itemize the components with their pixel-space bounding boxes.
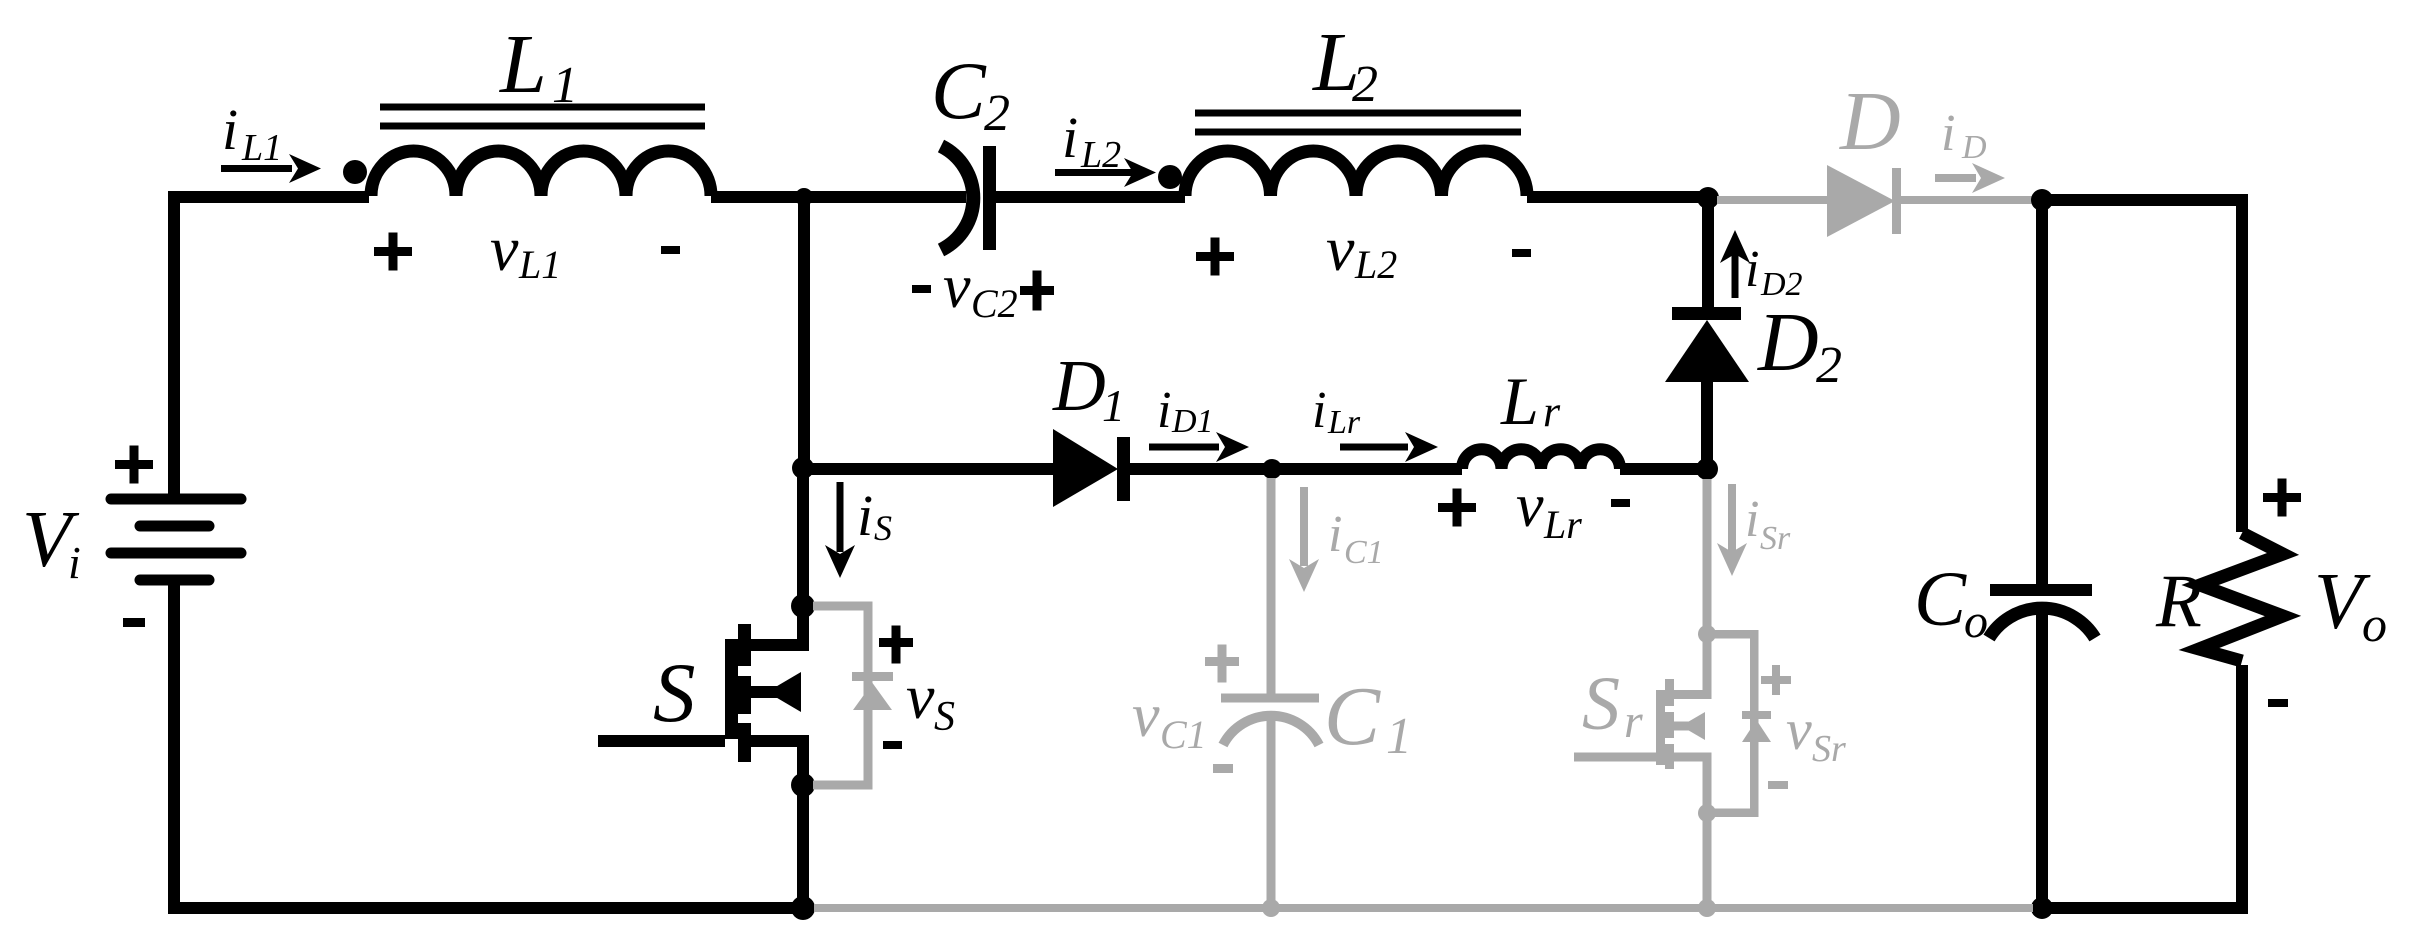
current arrow iD1 <box>1149 444 1219 451</box>
svg-text:Sr: Sr <box>1812 728 1846 770</box>
svg-text:L: L <box>1500 363 1539 439</box>
node: junction L2/D/D2 <box>1697 187 1719 209</box>
inductor Lr coil <box>1462 449 1620 469</box>
wire: middle horizontal from S branch to D1 <box>803 463 1053 475</box>
transistor S gate lead <box>598 735 725 747</box>
wire: bottom rail gray from S branch to Co node <box>814 904 2033 912</box>
transistor Sr source lead (gray) <box>1674 753 1712 814</box>
svg-text:i: i <box>1941 105 1955 162</box>
svg-text:1: 1 <box>1102 380 1125 431</box>
label + of Vi <box>115 446 153 484</box>
label - of vC1 (gray) <box>1213 764 1233 773</box>
capacitor C1 straight plate (gray) <box>1221 694 1319 703</box>
wire: vertical from S source node to bottom rail <box>797 785 809 914</box>
node: junction of S branch and D1 wire <box>792 457 814 479</box>
diode D (gray) triangle <box>1827 165 1895 237</box>
svg-text:v: v <box>943 253 971 321</box>
wire: D2 anode vertical down to Lr node <box>1701 382 1713 469</box>
current arrow iSr (gray) <box>1728 484 1736 552</box>
svg-text:o: o <box>2362 596 2387 652</box>
svg-text:D: D <box>1052 345 1106 426</box>
wire: bottom rail black from Vi to S branch <box>168 902 809 914</box>
capacitor C1 branch wire (gray) from D1 node down <box>1267 478 1276 698</box>
svg-text:2: 2 <box>1352 56 1378 113</box>
label -vC2+ <box>912 285 931 293</box>
wire: R branch vertical bottom <box>2236 665 2248 914</box>
svg-text:Lr: Lr <box>1543 502 1582 547</box>
svg-text:S: S <box>934 694 955 740</box>
transistor S channel bar segments <box>738 624 751 762</box>
svg-text:Sr: Sr <box>1760 520 1791 557</box>
node: junction Lr/D2/Sr <box>1696 458 1718 480</box>
diode D2 triangle <box>1665 320 1749 382</box>
wire: top horizontal from L1 to C2 <box>711 191 966 203</box>
transistor Sr drain lead (gray) <box>1674 634 1712 699</box>
svg-text:S: S <box>1582 662 1620 746</box>
svg-text:Lr: Lr <box>1327 404 1361 441</box>
svg-text:C1: C1 <box>1344 534 1384 571</box>
svg-text:v: v <box>490 213 519 284</box>
wire: bottom-right horizontal rail from R to Co node <box>2042 902 2248 914</box>
wire: left vertical from top corner down to battery + plate <box>168 191 180 499</box>
wire: Sr branch vertical (gray) from Lr node down to Sr drain node <box>1703 479 1712 634</box>
label + of vLr <box>1438 489 1476 527</box>
node: Sr/bottom rail junction (gray) <box>1698 899 1716 917</box>
diode D (gray) cathode bar <box>1892 168 1901 234</box>
current arrow iS <box>837 482 844 552</box>
transistor Sr gate lead (gray) <box>1574 753 1656 762</box>
svg-text:o: o <box>1964 595 1988 648</box>
svg-text:i: i <box>68 537 81 588</box>
svg-text:r: r <box>1624 695 1643 748</box>
label - of Vo <box>2268 699 2288 707</box>
svg-text:i: i <box>1328 506 1342 563</box>
svg-text:i: i <box>1745 241 1759 298</box>
svg-text:i: i <box>1062 105 1078 170</box>
svg-text:v: v <box>1132 682 1160 750</box>
current arrow iD2 <box>1732 250 1739 298</box>
label + of vL2 <box>1196 238 1234 276</box>
battery Vi plate 3 (long) <box>111 548 241 559</box>
capacitor Co straight plate <box>1990 584 2092 596</box>
current arrow iLr <box>1340 444 1408 451</box>
inductor L2 core lines <box>1195 113 1521 132</box>
inductor L1 coil <box>371 151 711 196</box>
wire: R branch vertical top <box>2236 200 2248 532</box>
transistor S body stub and arrow <box>751 686 801 698</box>
transistor Sr channel bar segments (gray) <box>1665 679 1674 769</box>
wire: D2 branch vertical from top node down to cathode bar <box>1702 198 1714 307</box>
svg-text:i: i <box>1312 382 1326 439</box>
wire: Sr body-diode loop (gray) <box>1714 630 1759 817</box>
label + of vC1 (gray) <box>1205 645 1239 683</box>
svg-text:i: i <box>1745 491 1759 548</box>
node: junction Co/bottom rail <box>2031 897 2053 919</box>
capacitor C1 curved plate (gray) <box>1223 716 1319 745</box>
label + of vSr (gray) <box>1761 665 1791 695</box>
label + of vS <box>879 626 913 664</box>
transistor Sr body stub and arrow (gray) <box>1674 722 1705 731</box>
svg-text:2: 2 <box>984 85 1010 142</box>
wire: top horizontal from L2 to D2 node <box>1527 191 1708 203</box>
svg-text:C: C <box>1324 670 1381 763</box>
wire: vertical from top junction down to D1 node <box>798 197 810 469</box>
wire: top horizontal from C2 to L2 <box>996 191 1185 203</box>
node: Sr drain node (gray) <box>1698 625 1716 643</box>
current arrow iC1 (gray) <box>1300 487 1308 566</box>
svg-text:L1: L1 <box>518 242 561 287</box>
wire: middle horizontal from D1 to Lr <box>1130 463 1462 475</box>
wire: Sr source to bottom rail (gray) <box>1703 813 1712 908</box>
diode D1 triangle <box>1053 429 1118 507</box>
svg-text:C2: C2 <box>971 281 1018 326</box>
svg-text:1: 1 <box>552 57 578 114</box>
node: S drain node <box>791 594 815 618</box>
node: S source node <box>791 773 815 797</box>
svg-text:L2: L2 <box>1354 242 1397 287</box>
capacitor C2 straight plate <box>983 146 996 250</box>
svg-text:C: C <box>1914 555 1967 642</box>
wire: gray cathode wire of diode D <box>1901 196 2042 204</box>
label - of vL2 <box>1512 249 1531 257</box>
svg-text:D1: D1 <box>1171 403 1214 440</box>
label - of vL1 <box>661 246 680 254</box>
label + of vL1 <box>374 233 412 271</box>
current arrow iL2 <box>1055 169 1135 176</box>
svg-text:2: 2 <box>1816 337 1842 394</box>
node: junction D1/C1/Lr <box>1262 459 1282 479</box>
svg-text:v: v <box>1786 697 1812 762</box>
polarity dot of L1 <box>343 160 367 184</box>
svg-text:R: R <box>2155 560 2202 643</box>
transistor S source lead <box>750 735 809 785</box>
svg-text:D: D <box>1757 296 1819 389</box>
wire: C1 bottom lead (gray) <box>1267 716 1276 908</box>
svg-text:C: C <box>931 45 987 136</box>
svg-text:v: v <box>1326 213 1355 284</box>
inductor L1 core lines <box>380 107 705 126</box>
svg-text:r: r <box>1543 387 1561 436</box>
svg-text:i: i <box>857 483 873 548</box>
svg-text:D: D <box>1839 75 1901 168</box>
svg-text:S: S <box>874 508 892 548</box>
capacitor C2 curved plate <box>941 146 973 250</box>
svg-text:1: 1 <box>1386 708 1412 765</box>
wire: gray anode wire of diode D <box>1717 196 1827 204</box>
label - of vSr (gray) <box>1768 781 1788 789</box>
battery Vi plate 4 (short -) <box>140 575 209 586</box>
resistor R zigzag <box>2199 533 2283 661</box>
node: bottom rail junction at S branch <box>791 896 815 920</box>
wire: top-right horizontal from node to R corner <box>2042 194 2248 206</box>
body diode of S (gray) triangle <box>853 683 892 710</box>
svg-text:S: S <box>653 646 696 740</box>
label - of vLr <box>1611 499 1630 507</box>
svg-text:i: i <box>1157 382 1171 439</box>
body diode of Sr (gray) cathode bar <box>1742 711 1771 719</box>
svg-text:v: v <box>906 661 935 732</box>
current arrow iD (gray) <box>1935 174 1976 182</box>
current arrow iL1 <box>221 165 292 172</box>
svg-text:i: i <box>222 97 238 162</box>
svg-text:D: D <box>1961 129 1987 166</box>
node: junction of L1/C2/S branch <box>795 188 813 206</box>
inductor L2 coil <box>1185 151 1527 196</box>
wire: vertical of Co from curved plate to bottom rail <box>2036 612 2048 908</box>
capacitor Co curved plate <box>1989 608 2095 638</box>
polarity dot of L2 <box>1158 165 1182 189</box>
transistor S drain lead <box>750 606 809 651</box>
svg-text:L: L <box>499 18 547 111</box>
svg-text:v: v <box>1516 472 1544 540</box>
label + of Vo <box>2263 479 2301 517</box>
diode D1 cathode bar <box>1117 437 1130 501</box>
svg-text:L1: L1 <box>241 127 282 169</box>
wire: left vertical from battery - plate to bottom rail <box>168 580 180 914</box>
wire: middle horizontal from Lr to corner node <box>1620 463 1713 475</box>
node: Sr source node (gray) <box>1698 804 1716 822</box>
transistor Sr gate bar (gray) <box>1656 690 1665 765</box>
wire: S body-diode loop (gray) <box>813 602 873 790</box>
transistor S gate bar <box>725 639 738 739</box>
wire: vertical of Co from top node to top plate <box>2036 200 2048 590</box>
svg-text:C1: C1 <box>1160 712 1207 757</box>
body diode of S (gray) cathode bar <box>852 672 893 681</box>
body diode of Sr (gray) triangle <box>1742 720 1771 742</box>
node: junction D/Co/R <box>2031 189 2053 211</box>
diode D2 cathode bar <box>1672 307 1741 320</box>
battery Vi plate 1 (long +) <box>111 494 241 505</box>
label - of Vi <box>123 618 145 627</box>
wire: vertical from D1 node down to S drain node <box>797 469 809 606</box>
label - of vS <box>883 741 902 749</box>
battery Vi plate 2 (short) <box>140 521 209 532</box>
node: C1/bottom rail junction (gray) <box>1262 899 1280 917</box>
wire: top-left horizontal from Vi to L1 <box>174 191 369 203</box>
